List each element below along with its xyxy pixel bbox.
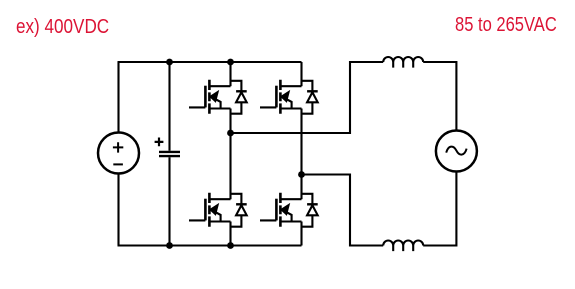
DC source plus sign	[113, 142, 123, 152]
wire: Q2 source connection	[300, 109, 302, 175]
junction: left leg / bottom bus	[227, 242, 234, 249]
AC source circle	[436, 131, 477, 172]
wire: DC source upper lead	[117, 62, 119, 133]
junction: capacitor / bottom bus	[166, 242, 173, 249]
wire: Q1 drain connection	[229, 62, 231, 86]
wire: Q2 drain connection	[300, 62, 302, 86]
wire: AC source to bottom inductor	[423, 172, 456, 246]
wire: Q4 drain connection	[300, 175, 302, 200]
wire: capacitor lower lead	[168, 157, 170, 245]
DC voltage source V1 circle	[98, 133, 139, 174]
transistor Q3 (N-MOSFET with body diode)	[189, 193, 247, 227]
inductor L1	[383, 57, 423, 68]
capacitor C1 plates	[159, 152, 180, 156]
wire: node A to top inductor	[231, 62, 384, 133]
wire: top DC bus	[118, 61, 302, 63]
wire: bottom DC bus	[118, 244, 302, 246]
junction: node A	[227, 130, 234, 137]
transistor Q2 (N-MOSFET with body diode)	[260, 80, 318, 114]
wire: capacitor upper lead	[168, 62, 170, 151]
wire: top inductor to AC source	[423, 62, 456, 131]
DC source minus sign	[113, 163, 123, 165]
wire: bottom inductor to node B	[302, 175, 384, 246]
junction: capacitor / top bus	[166, 59, 173, 66]
transistor Q4 (N-MOSFET with body diode)	[260, 193, 318, 227]
inductor L2	[383, 241, 423, 252]
capacitor plus sign	[155, 138, 164, 147]
AC source sine symbol	[446, 147, 466, 155]
label: ex) 400VDC	[16, 17, 109, 37]
label: 85 to 265VAC	[455, 15, 557, 35]
junction: node B	[298, 171, 305, 178]
wire: Q3 drain connection	[229, 133, 231, 199]
wire: DC source lower lead	[117, 174, 119, 246]
wire: Q1 source connection	[229, 109, 231, 134]
wire: Q4 source connection	[300, 222, 302, 246]
wire: Q3 source connection	[229, 222, 231, 246]
transistor Q1 (N-MOSFET with body diode)	[189, 80, 247, 114]
junction: left leg / top bus	[227, 59, 234, 66]
